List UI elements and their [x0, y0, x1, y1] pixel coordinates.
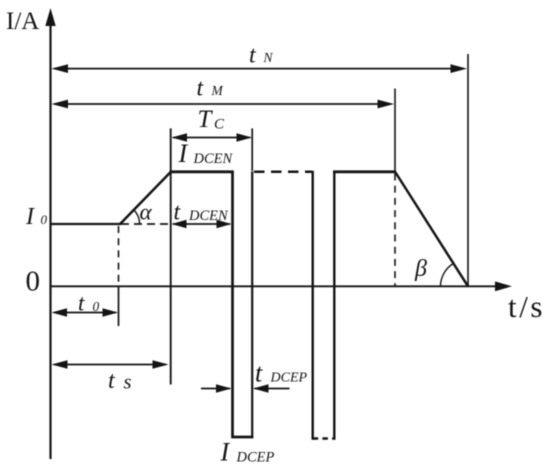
dimension arrow t_DCEP right leader — [253, 384, 290, 392]
svg-text:DCEP: DCEP — [270, 371, 308, 386]
label tN — [249, 43, 274, 69]
wire pulse2 rising edge — [333, 171, 335, 440]
dimension arrow t_DCEP left leader — [201, 384, 232, 392]
dimension boundary line for tM x=395 — [394, 89, 396, 172]
wire pulse1 bottom at I_DCEP — [231, 436, 253, 439]
wire waveform first flat top at I_DCEN — [170, 170, 234, 173]
label I0 — [25, 204, 48, 230]
label Tc — [198, 106, 226, 133]
dashed projection from ramp corner to axis x=395 — [394, 174, 396, 286]
y-axis — [49, 20, 51, 459]
beta angle arc — [441, 264, 454, 287]
label t_DCEN — [174, 200, 230, 226]
dashed I0 level extension under ramp — [121, 223, 174, 225]
svg-text:M: M — [211, 83, 224, 98]
wire waveform downslope ramp (angle beta) — [395, 172, 468, 287]
svg-text:I: I — [220, 438, 231, 467]
wire dashed continuation top (omitted cycles) — [254, 171, 312, 174]
label ts — [108, 368, 132, 394]
label tM — [197, 76, 224, 102]
svg-text:I/A: I/A — [6, 8, 39, 35]
label I_DCEP — [220, 438, 275, 467]
svg-text:DCEP: DCEP — [236, 450, 275, 466]
wire waveform I0 flat segment — [51, 223, 121, 225]
svg-text:0: 0 — [26, 266, 41, 298]
svg-text:I: I — [178, 139, 189, 168]
label I_DCEN — [178, 139, 234, 168]
wire waveform upslope ramp (angle alpha) — [120, 172, 171, 225]
x-axis — [50, 285, 499, 287]
svg-text:DCEN: DCEN — [188, 208, 229, 224]
dimension arrow t0 — [52, 308, 119, 316]
dimension arrow Tc — [172, 133, 253, 141]
svg-text:0: 0 — [93, 299, 100, 314]
svg-text:T: T — [198, 106, 214, 133]
svg-text:α: α — [140, 200, 153, 225]
dimension arrow t_DCEN — [172, 220, 232, 228]
dimension boundary line for tN x=468 — [467, 54, 469, 286]
svg-text:β: β — [414, 256, 427, 282]
svg-text:t: t — [78, 291, 85, 316]
svg-text:t/s: t/s — [508, 289, 545, 324]
wire pulse1 falling edge — [231, 171, 234, 438]
svg-text:s: s — [124, 372, 132, 394]
dimension arrow tM — [52, 100, 395, 109]
svg-text:I: I — [25, 204, 35, 230]
wire pulse2 falling edge — [312, 171, 314, 440]
svg-text:t: t — [108, 368, 116, 394]
y-axis arrowhead — [45, 8, 55, 26]
alpha angle arc — [134, 210, 140, 224]
dimension boundary line above pulse1 right edge x=252.2 — [251, 128, 253, 171]
svg-text:0: 0 — [41, 212, 48, 227]
wire pulse1 rising edge — [251, 172, 253, 439]
svg-text:t: t — [249, 43, 257, 69]
svg-text:DCEN: DCEN — [193, 151, 234, 167]
svg-text:t: t — [255, 359, 263, 388]
dimension boundary below axis x=118.5 — [118, 286, 120, 326]
label t0 — [78, 291, 100, 316]
svg-text:t: t — [197, 76, 205, 102]
svg-text:C: C — [214, 117, 225, 133]
x-axis arrowhead — [495, 281, 512, 291]
svg-text:N: N — [263, 50, 274, 65]
dimension arrow ts — [52, 360, 169, 368]
dashed projection at ramp start x=118.5 — [118, 226, 120, 286]
dimension arrow tN — [52, 64, 468, 73]
wire pulse2 dashed bottom — [313, 437, 335, 439]
dimension boundary line at ts/Tc start x=170.5 — [170, 128, 172, 384]
wire waveform final flat top — [333, 170, 396, 173]
label t_DCEP — [255, 359, 308, 388]
